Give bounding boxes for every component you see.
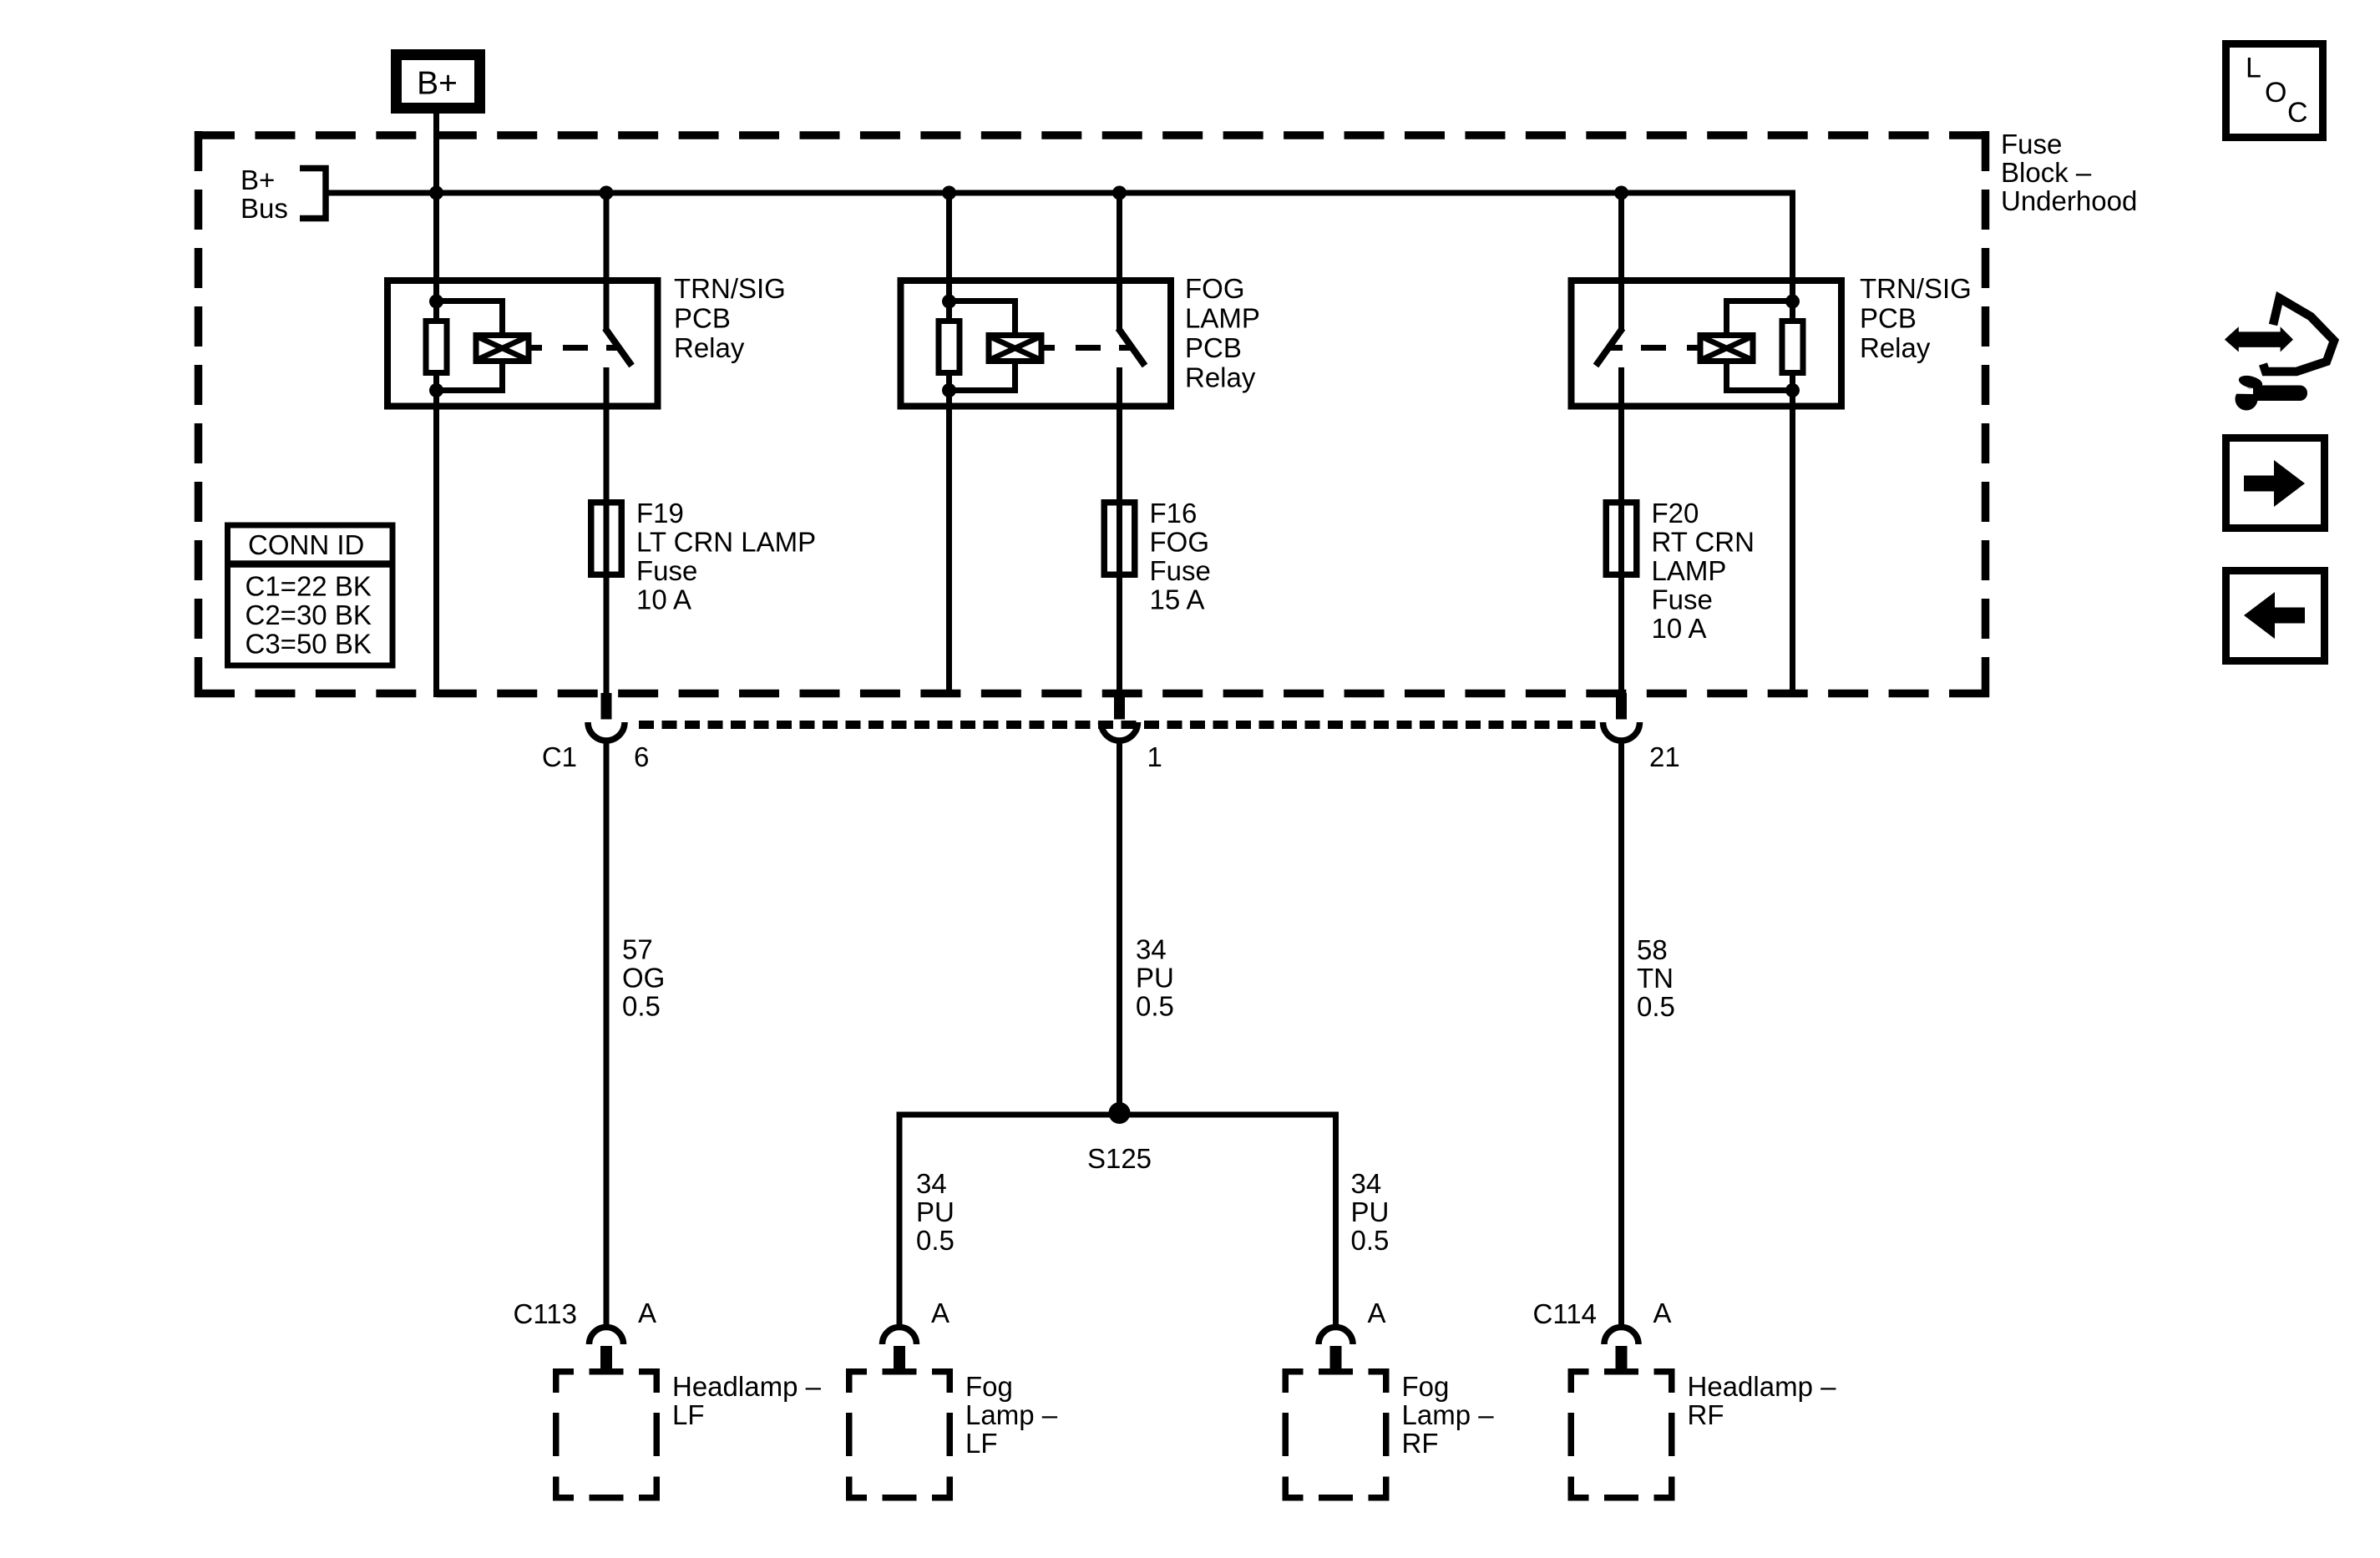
label S125	[1087, 1143, 1152, 1174]
icon forward arrow box	[2226, 438, 2325, 529]
svg-text:OG: OG	[622, 963, 665, 994]
component box Headlamp - RF (dashed)	[1568, 1368, 1675, 1501]
svg-text:LF: LF	[672, 1399, 705, 1430]
svg-text:PU: PU	[1351, 1196, 1390, 1227]
node junction dot bus / relay3 switch	[1614, 186, 1628, 200]
svg-text:TRN/SIG: TRN/SIG	[674, 273, 786, 304]
wire relay K3 TRN/SIG PCB (right) coil loop bottom	[1727, 362, 1793, 391]
svg-text:C: C	[2287, 97, 2308, 129]
svg-text:F20: F20	[1652, 498, 1699, 529]
node junction dot bus / relay2 coil	[942, 186, 956, 200]
connector row dotted separator line	[639, 721, 1597, 729]
svg-text:0.5: 0.5	[916, 1225, 955, 1256]
wire relay K2 FOG LAMP PCB (center) coil loop top	[949, 301, 1015, 333]
svg-text:B+: B+	[417, 65, 458, 101]
switch relay K3 TRN/SIG PCB (right) contact blade	[1596, 328, 1623, 366]
component box Fog Lamp - LF (dashed)	[846, 1368, 953, 1501]
svg-text:L: L	[2246, 53, 2261, 84]
power symbol B+	[397, 55, 480, 109]
svg-text:RF: RF	[1402, 1428, 1439, 1459]
wire relay K1 TRN/SIG PCB (left) coil top feed	[433, 296, 439, 321]
svg-text:TN: TN	[1637, 963, 1674, 994]
svg-text:PCB: PCB	[1185, 332, 1242, 363]
svg-text:A: A	[1368, 1297, 1386, 1328]
svg-text:C114: C114	[1533, 1298, 1597, 1329]
svg-text:Block –: Block –	[2001, 157, 2092, 188]
wire bus to relay3 switch	[1618, 193, 1624, 330]
svg-text:10 A: 10 A	[636, 584, 691, 615]
wire 34 PU 0.5 (C1-1 to S125)	[1117, 740, 1122, 1115]
svg-text:RT CRN: RT CRN	[1652, 527, 1755, 558]
svg-text:0.5: 0.5	[1136, 991, 1174, 1022]
CONN ID table box	[225, 525, 395, 665]
pin label A of Fog Lamp LF cavity A	[931, 1297, 949, 1328]
wire bus corner down to relay3 coil	[1790, 190, 1795, 303]
pin label A of C113 cavity A	[638, 1297, 656, 1328]
fuse F19 symbol	[591, 503, 622, 575]
pin label 1 of C1 cavity 1	[1147, 741, 1162, 772]
svg-text:F16: F16	[1150, 498, 1198, 529]
CONN ID table rows	[246, 571, 372, 660]
svg-text:Fuse: Fuse	[636, 555, 697, 586]
pin label A of C114 cavity A	[1653, 1297, 1672, 1328]
label Headlamp - RF	[1688, 1371, 1837, 1430]
svg-text:C2=30 BK: C2=30 BK	[246, 599, 372, 630]
connector C113 cavity A male pin	[600, 1346, 612, 1372]
svg-text:A: A	[931, 1297, 949, 1328]
wire 34 PU 0.5 left branch (S125 to Fog Lamp LF)	[897, 1112, 903, 1328]
svg-text:RF: RF	[1688, 1399, 1724, 1430]
label Fuse Block - Underhood	[2001, 129, 2137, 216]
component box Headlamp - LF (dashed)	[553, 1368, 660, 1501]
fuse F19 label	[636, 498, 816, 615]
node junction dot bus / B+ feed	[429, 186, 443, 200]
svg-text:Fuse: Fuse	[1652, 584, 1713, 615]
wire B+ feed down to bus and TRN/SIG relay coil (left)	[433, 114, 439, 302]
wire relay K2 FOG LAMP PCB (center) coil loop bottom	[949, 362, 1015, 391]
connector Fog Lamp RF cavity A female cup	[1319, 1328, 1353, 1344]
label wire 34 PU 0.5 (upper)	[1136, 934, 1174, 1022]
connector C1 cavity 21 female cup	[1603, 722, 1640, 741]
wire relay K1 TRN/SIG PCB (left) switch lower	[604, 367, 610, 696]
svg-text:PU: PU	[1136, 963, 1174, 994]
svg-text:Headlamp –: Headlamp –	[672, 1371, 822, 1402]
svg-text:C1: C1	[542, 741, 577, 772]
svg-text:Relay: Relay	[1860, 332, 1931, 363]
wire 58 TN 0.5 (C1-21 to C114)	[1618, 740, 1624, 1327]
node junction dot bus / relay2 switch	[1112, 186, 1127, 200]
svg-text:21: 21	[1649, 741, 1680, 772]
label C1	[542, 741, 577, 772]
label wire 34 PU 0.5 left branch	[916, 1168, 955, 1256]
wire relay K3 TRN/SIG PCB (right) dashed actuation link	[1609, 345, 1666, 351]
svg-text:15 A: 15 A	[1150, 584, 1205, 615]
wire relay K3 TRN/SIG PCB (right) coil loop top	[1727, 301, 1793, 333]
svg-text:LAMP: LAMP	[1185, 303, 1260, 334]
svg-text:Bus: Bus	[241, 193, 288, 224]
svg-text:C3=50 BK: C3=50 BK	[246, 629, 372, 660]
fuse F20 symbol	[1606, 503, 1637, 575]
relay K2 FOG LAMP PCB (center) label	[1185, 273, 1260, 393]
node splice S125 dot	[1109, 1102, 1131, 1124]
svg-text:Fuse: Fuse	[1150, 555, 1211, 586]
svg-text:Fuse: Fuse	[2001, 129, 2062, 159]
pin label 6 of C1 cavity 6	[634, 741, 649, 772]
wire relay K1 TRN/SIG PCB (left) dashed actuation link	[563, 345, 620, 351]
node relay K1 TRN/SIG PCB (left) coil top dot	[429, 295, 443, 309]
svg-text:LAMP: LAMP	[1652, 555, 1727, 586]
svg-text:A: A	[638, 1297, 656, 1328]
label B+ Bus	[241, 164, 288, 224]
label Fog Lamp - LF	[965, 1371, 1058, 1459]
wire relay K2 FOG LAMP PCB (center) dashed actuation link	[1076, 345, 1132, 351]
wire relay K3 TRN/SIG PCB (right) coil top feed	[1790, 296, 1795, 321]
coil relay K2 FOG LAMP PCB (center) symbol	[989, 336, 1041, 362]
node relay K3 TRN/SIG PCB (right) coil bottom dot	[1785, 383, 1800, 397]
svg-text:57: 57	[622, 934, 653, 965]
svg-text:TRN/SIG: TRN/SIG	[1860, 273, 1972, 304]
svg-text:Fog: Fog	[1402, 1371, 1450, 1402]
connector Fog Lamp LF cavity A male pin	[894, 1346, 905, 1372]
wire B+ bus horizontal	[326, 190, 1795, 196]
svg-text:C1=22 BK: C1=22 BK	[246, 571, 372, 602]
svg-text:Relay: Relay	[674, 332, 745, 363]
svg-text:34: 34	[1136, 934, 1167, 965]
icon back arrow box	[2226, 571, 2325, 661]
svg-text:LT CRN LAMP: LT CRN LAMP	[636, 527, 816, 558]
label wire 57 OG 0.5	[622, 934, 665, 1022]
wire relay K1 TRN/SIG PCB (left) coil loop top	[437, 301, 503, 333]
label C114	[1533, 1298, 1597, 1329]
label wire 34 PU 0.5 right branch	[1351, 1168, 1390, 1256]
wire relay K2 FOG LAMP PCB (center) coil lower to border	[946, 376, 952, 697]
fuse F16 symbol	[1104, 503, 1135, 575]
svg-text:0.5: 0.5	[1351, 1225, 1390, 1256]
wire 34 PU 0.5 right branch (S125 to Fog Lamp RF)	[1333, 1112, 1339, 1328]
svg-text:F19: F19	[636, 498, 684, 529]
icon service wrench	[2231, 373, 2307, 410]
svg-text:58: 58	[1637, 934, 1668, 965]
svg-text:6: 6	[634, 741, 649, 772]
wire splice crossbar S125	[897, 1112, 1339, 1118]
svg-text:A: A	[1653, 1297, 1672, 1328]
svg-text:34: 34	[1351, 1168, 1382, 1199]
wire relay K2 FOG LAMP PCB (center) switch lower	[1117, 367, 1122, 696]
pin label A of Fog Lamp RF cavity A	[1368, 1297, 1386, 1328]
connector C1 cavity 21 male pin	[1616, 693, 1627, 720]
wire relay K1 TRN/SIG PCB (left) coil loop bottom	[437, 362, 503, 391]
coil relay K3 TRN/SIG PCB (right) symbol	[1700, 336, 1753, 362]
svg-text:Underhood: Underhood	[2001, 185, 2137, 216]
svg-text:Lamp –: Lamp –	[1402, 1399, 1495, 1430]
relay K1 TRN/SIG PCB (left) label	[674, 273, 786, 363]
svg-text:34: 34	[916, 1168, 947, 1199]
relay K3 TRN/SIG PCB (right) box	[1572, 281, 1842, 407]
wire relay K1 TRN/SIG PCB (left) coil stub	[529, 345, 542, 351]
switch relay K1 TRN/SIG PCB (left) contact blade	[605, 328, 632, 366]
coil relay K1 TRN/SIG PCB (left) symbol	[476, 336, 529, 362]
wire relay K3 TRN/SIG PCB (right) coil stub	[1687, 345, 1700, 351]
svg-text:CONN ID: CONN ID	[248, 529, 364, 560]
icon service double arrow and outline	[2225, 298, 2334, 372]
connector Fog Lamp LF cavity A female cup	[883, 1328, 917, 1345]
connector C114 cavity A male pin	[1616, 1346, 1628, 1372]
svg-text:PCB: PCB	[674, 303, 731, 334]
connector C1 cavity 6 female cup	[588, 722, 625, 741]
wire 57 OG 0.5 (C1-6 to C113)	[604, 740, 610, 1327]
fuse F16 label	[1150, 498, 1211, 615]
fuse F20 label	[1652, 498, 1755, 644]
svg-text:FOG: FOG	[1185, 273, 1245, 304]
connector C1 cavity 1 female cup	[1101, 722, 1138, 741]
svg-text:Relay: Relay	[1185, 362, 1256, 393]
label C113	[514, 1298, 577, 1329]
relay K1 TRN/SIG PCB (left) box	[387, 281, 658, 407]
svg-text:0.5: 0.5	[1637, 991, 1675, 1022]
svg-text:LF: LF	[965, 1428, 998, 1459]
fuse block underhood dashed border - right	[1982, 131, 1990, 697]
resistor relay K2 FOG LAMP PCB (center)	[939, 321, 960, 373]
resistor relay K1 TRN/SIG PCB (left)	[426, 321, 447, 373]
node relay K2 FOG LAMP PCB (center) coil bottom dot	[942, 383, 956, 397]
label Fog Lamp - RF	[1402, 1371, 1495, 1459]
svg-text:C113: C113	[514, 1298, 577, 1329]
svg-text:Headlamp –: Headlamp –	[1688, 1371, 1837, 1402]
node relay K2 FOG LAMP PCB (center) coil top dot	[942, 295, 956, 309]
wire bus to relay2 switch	[1117, 193, 1122, 330]
resistor relay K3 TRN/SIG PCB (right)	[1782, 321, 1803, 373]
svg-text:PCB: PCB	[1860, 303, 1917, 334]
B+ Bus bracket	[300, 169, 326, 219]
switch relay K2 FOG LAMP PCB (center) contact blade	[1118, 328, 1145, 366]
svg-text:10 A: 10 A	[1652, 613, 1707, 644]
node junction dot bus / relay1 switch	[600, 186, 614, 200]
wire relay K2 FOG LAMP PCB (center) coil top feed	[946, 296, 952, 321]
connector C1 cavity 6 male pin	[601, 693, 612, 720]
fuse block underhood dashed border - bottom	[195, 690, 1989, 698]
svg-text:FOG: FOG	[1150, 527, 1210, 558]
node relay K1 TRN/SIG PCB (left) coil bottom dot	[429, 383, 443, 397]
connector C1 cavity 1 male pin	[1114, 693, 1125, 720]
pin label 21 of C1 cavity 21	[1649, 741, 1680, 772]
connector C113 cavity A female cup	[590, 1328, 624, 1344]
label Headlamp - LF	[672, 1371, 822, 1430]
wire bus to relay2 coil	[946, 193, 952, 302]
svg-text:0.5: 0.5	[622, 991, 661, 1022]
wire relay K2 FOG LAMP PCB (center) coil stub	[1041, 345, 1055, 351]
wire relay K1 TRN/SIG PCB (left) coil lower to border	[433, 376, 439, 697]
svg-text:B+: B+	[241, 164, 275, 195]
wire bus to relay1 switch	[604, 193, 610, 330]
wire relay K3 TRN/SIG PCB (right) coil lower to border	[1790, 376, 1795, 697]
svg-text:S125: S125	[1087, 1143, 1152, 1174]
relay K3 TRN/SIG PCB (right) label	[1860, 273, 1972, 363]
fuse block underhood dashed border - top	[195, 131, 1989, 139]
fuse block underhood dashed border - left	[195, 131, 203, 697]
label wire 58 TN 0.5	[1637, 934, 1675, 1022]
connector Fog Lamp RF cavity A male pin	[1330, 1346, 1342, 1372]
svg-text:Lamp –: Lamp –	[965, 1399, 1058, 1430]
relay K2 FOG LAMP PCB (center) box	[901, 281, 1172, 407]
svg-text:Fog: Fog	[965, 1371, 1013, 1402]
component box Fog Lamp - RF (dashed)	[1283, 1368, 1390, 1501]
node relay K3 TRN/SIG PCB (right) coil top dot	[1785, 295, 1800, 309]
icon LOC box	[2226, 44, 2323, 138]
wire relay K3 TRN/SIG PCB (right) switch lower	[1618, 367, 1624, 696]
CONN ID table header text	[248, 529, 364, 560]
svg-text:O: O	[2265, 77, 2286, 109]
svg-text:1: 1	[1147, 741, 1162, 772]
svg-text:PU: PU	[916, 1196, 955, 1227]
connector C114 cavity A female cup	[1604, 1328, 1638, 1345]
